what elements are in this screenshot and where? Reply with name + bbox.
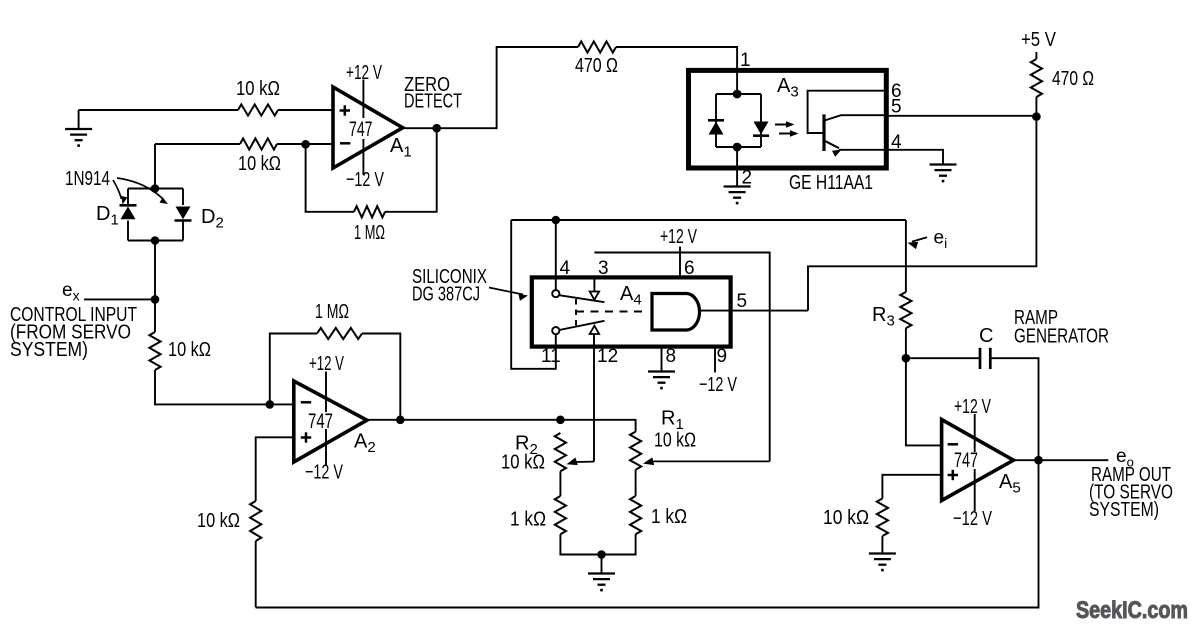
svg-text:10 kΩ: 10 kΩ xyxy=(236,77,280,100)
wire xyxy=(990,358,1038,460)
svg-text:8: 8 xyxy=(666,346,677,367)
capacitor C xyxy=(980,348,990,369)
wire (LED bridge outline) xyxy=(716,94,761,147)
label pin 2 xyxy=(742,168,753,189)
wire (pin 11 loop) xyxy=(511,220,556,369)
wire (pin 6 +12V stub) xyxy=(679,247,681,278)
wire xyxy=(155,370,294,404)
node (divider ground) xyxy=(597,550,606,559)
op-amp A2 747 xyxy=(294,381,367,462)
svg-text:11: 11 xyxy=(541,346,561,367)
wire (pin 5 out) xyxy=(701,310,809,312)
svg-text:+5 V: +5 V xyxy=(1021,28,1056,51)
label pin 6 (A4) xyxy=(684,258,695,279)
svg-text:SYSTEM): SYSTEM) xyxy=(10,338,88,361)
label 747 xyxy=(308,410,333,433)
node (R3 / C junction) xyxy=(902,354,911,363)
label -12 V (A4) xyxy=(699,373,737,396)
label 1N914 xyxy=(65,167,110,190)
label 10 k&#937; xyxy=(168,338,211,361)
svg-text:12: 12 xyxy=(597,346,618,367)
svg-text:+12 V: +12 V xyxy=(954,395,991,418)
label pin 4 xyxy=(891,132,902,153)
wire (A5 output) xyxy=(1014,459,1109,461)
switch arm (lower) xyxy=(559,321,604,330)
label ei xyxy=(934,228,948,252)
node (opto collector / pull-up) xyxy=(1032,112,1041,121)
diode (opto LED left, conducts up) xyxy=(708,120,724,134)
label 1 M&#937; xyxy=(315,300,349,323)
svg-text:DG 387CJ: DG 387CJ xyxy=(412,283,480,306)
label +12 V xyxy=(309,352,344,375)
wire xyxy=(881,536,883,554)
wire (A5 + input) xyxy=(882,475,941,499)
wire (diode box outline) xyxy=(128,189,183,241)
svg-text:5: 5 xyxy=(891,97,902,118)
wire (ei line down to R3) xyxy=(905,220,907,292)
annotation arrow ei xyxy=(906,237,927,249)
diode D1 1N914 xyxy=(120,205,137,219)
switch contact (pin 11) xyxy=(552,327,559,334)
dashed link (switch gang) xyxy=(576,299,647,327)
wire (A2 output) xyxy=(367,419,561,421)
label ex xyxy=(62,280,80,304)
wire xyxy=(1035,97,1037,117)
svg-text:10 kΩ: 10 kΩ xyxy=(501,451,545,474)
resistor 10 k&#937; (ex input) xyxy=(149,332,160,370)
resistor 10 k&#937; (A5 + input) xyxy=(877,499,888,537)
wire xyxy=(155,143,240,145)
label SILICONIX DG 387CJ xyxy=(412,265,487,306)
svg-text:747: 747 xyxy=(954,449,978,472)
label A4 xyxy=(620,283,642,309)
wire xyxy=(560,534,635,554)
node (LED bridge bottom) xyxy=(733,143,742,152)
label RAMP GENERATOR xyxy=(1014,306,1109,348)
svg-text:+12 V: +12 V xyxy=(346,61,382,84)
wire (opto pin 5 to node) xyxy=(886,115,1036,117)
svg-text:1 MΩ: 1 MΩ xyxy=(354,221,385,244)
svg-text:5: 5 xyxy=(737,291,748,312)
label 470 &#937; xyxy=(575,54,618,77)
label A3 xyxy=(777,75,799,101)
op-amp A5 minus sign xyxy=(948,443,958,446)
ground (A1 + input reference) xyxy=(65,110,92,146)
svg-text:10 kΩ: 10 kΩ xyxy=(168,338,211,361)
node (diode box top) xyxy=(151,184,160,193)
wire (A5 +12 V stub) xyxy=(974,414,976,452)
potentiometer R2 10 k&#937; xyxy=(555,433,566,471)
label +5 V xyxy=(1021,28,1056,51)
ground (A4 pin 8) xyxy=(648,372,675,389)
label A5 xyxy=(999,471,1021,497)
label C xyxy=(979,325,993,347)
resistor 1 M&#937; (A2 feedback) xyxy=(317,328,362,339)
wire xyxy=(403,47,578,128)
wire xyxy=(84,298,155,300)
label eo xyxy=(1116,446,1134,470)
label ZERO DETECT xyxy=(404,73,462,113)
wire (A1 +12 V stub) xyxy=(362,80,364,119)
label GE H11AA1 xyxy=(789,171,873,194)
label D1 xyxy=(96,203,119,229)
control triangle (pin 12, up) xyxy=(590,326,599,334)
svg-text:1: 1 xyxy=(740,50,751,71)
wire (bottom rail) xyxy=(256,460,1039,607)
phototransistor collector (pin 5) xyxy=(825,115,887,120)
node (A2 inverting input) xyxy=(266,400,275,409)
label 10 k&#937; xyxy=(501,451,545,474)
node (A1 inverting input) xyxy=(301,140,310,149)
label D2 xyxy=(201,206,224,232)
label 10 k&#937; xyxy=(654,429,696,452)
op-amp A1 minus sign xyxy=(340,142,350,145)
resistor 10 k&#937; (A1 + input) xyxy=(238,104,278,115)
label pin 9 (A4) xyxy=(717,346,728,367)
wiper arrow R1 xyxy=(642,457,770,467)
potentiometer R1 10 k&#937; xyxy=(630,432,641,470)
svg-text:4: 4 xyxy=(560,258,571,279)
op-amp A5 747 xyxy=(942,420,1014,501)
wire (A5 -12 V stub) xyxy=(974,469,976,511)
switch contact (pin 4) xyxy=(552,290,559,297)
resistor 1 k&#937; (below R2) xyxy=(555,496,566,534)
ground (opto pin 2) xyxy=(724,187,751,204)
svg-text:747: 747 xyxy=(308,410,333,433)
diode D2 1N914 xyxy=(175,207,192,221)
wire xyxy=(278,109,333,111)
wire (A2 -12 V stub) xyxy=(325,429,327,466)
op-amp A5 plus sign xyxy=(948,470,958,480)
wire (pin 3 stub) xyxy=(593,277,595,292)
annotation arrow to D1 xyxy=(113,180,127,205)
label pin 4 (A4) xyxy=(560,258,571,279)
control triangle (pin 3, down) xyxy=(590,292,599,300)
label -12 V xyxy=(305,461,343,484)
svg-text:−12 V: −12 V xyxy=(346,168,384,191)
label 747 xyxy=(954,449,978,472)
svg-text:3: 3 xyxy=(598,258,609,279)
label 747 xyxy=(349,118,373,141)
label pin 5 (A4) xyxy=(737,291,748,312)
svg-text:C: C xyxy=(979,325,993,347)
wiper arrow R2 xyxy=(565,457,594,468)
op-amp A1 plus sign xyxy=(340,105,350,115)
op-amp A2 plus sign xyxy=(301,432,311,442)
label +12 V xyxy=(346,61,382,84)
wire xyxy=(362,334,400,420)
wire xyxy=(906,357,980,359)
wire (A4 pin 12 to R2 wiper) xyxy=(593,334,595,462)
svg-text:6: 6 xyxy=(684,258,695,279)
svg-text:10 kΩ: 10 kΩ xyxy=(823,506,869,529)
label 10 k&#937; xyxy=(238,152,281,175)
wire xyxy=(905,328,907,358)
svg-text:10 kΩ: 10 kΩ xyxy=(238,152,281,175)
ground (divider) xyxy=(588,555,615,591)
label pin 1 xyxy=(740,50,751,71)
wire (A1 -12 V stub) xyxy=(362,139,364,175)
label pin 8 (A4) xyxy=(666,346,677,367)
node (LED bridge top) xyxy=(733,90,742,99)
svg-text:DETECT: DETECT xyxy=(404,90,462,113)
op-amp A1 747 xyxy=(333,87,403,168)
wire (A4 control bus) xyxy=(511,219,906,221)
label 1 k&#937; xyxy=(651,505,687,528)
label -12 V xyxy=(346,168,384,191)
label 10 k&#937; xyxy=(197,509,240,532)
node (diode box bottom) xyxy=(151,236,160,245)
annotation arrow to D2 xyxy=(117,178,170,207)
wire (A4 pin 3 to R1 wiper) xyxy=(594,253,769,462)
analog switch A4 package outline xyxy=(532,277,731,346)
label pin 12 (A4) xyxy=(597,346,618,367)
wire (A2 +12 V stub) xyxy=(325,372,327,413)
svg-text:GENERATOR: GENERATOR xyxy=(1014,325,1109,348)
label 10 k&#937; xyxy=(823,506,869,529)
svg-text:9: 9 xyxy=(717,346,728,367)
ground (opto emitter) xyxy=(930,165,957,182)
wire (A5 - input) xyxy=(906,358,942,445)
optocoupler A3 package outline xyxy=(689,70,887,168)
wire (pin 4 to ground) xyxy=(886,150,943,165)
svg-text:SeekIC.com: SeekIC.com xyxy=(1076,597,1188,624)
label 470 &#937; xyxy=(1052,67,1094,90)
svg-text:470 Ω: 470 Ω xyxy=(1052,67,1094,90)
label CONTROL INPUT (FROM SERVO SYSTEM) xyxy=(10,303,137,361)
label A1 xyxy=(390,135,412,161)
resistor 10 k&#937; (A2 + input) xyxy=(250,501,261,541)
label pin 5 xyxy=(891,97,902,118)
svg-text:−12 V: −12 V xyxy=(699,373,737,396)
svg-text:1 kΩ: 1 kΩ xyxy=(651,505,687,528)
wire xyxy=(154,144,156,189)
svg-text:−12 V: −12 V xyxy=(305,461,343,484)
resistor 10 k&#937; (A1 - input) xyxy=(240,138,277,149)
label 1 M&#937; xyxy=(354,221,385,244)
phototransistor emitter (pin 4) xyxy=(825,141,887,157)
annotation arrow to A4 xyxy=(489,288,529,301)
label R3 xyxy=(872,304,895,330)
resistor 470 &#937; (pull-up) xyxy=(1031,59,1042,97)
svg-text:1 MΩ: 1 MΩ xyxy=(315,300,349,323)
wire xyxy=(385,128,437,212)
node (A1 output) xyxy=(432,124,441,133)
wire xyxy=(1035,52,1037,59)
svg-text:+12 V: +12 V xyxy=(660,225,697,248)
label A2 xyxy=(354,431,376,457)
svg-text:10 kΩ: 10 kΩ xyxy=(197,509,240,532)
resistor 470 &#937; (LED drive) xyxy=(578,41,616,52)
label +12 V (A4) xyxy=(660,225,697,248)
label pin 11 (A4) xyxy=(541,346,561,367)
wire xyxy=(255,541,257,608)
ground (A5 + input) xyxy=(869,554,896,571)
wire xyxy=(277,143,333,145)
label 10 k&#937; xyxy=(236,77,280,100)
light arrows xyxy=(775,121,799,136)
gate symbol (A4 driver) xyxy=(652,294,700,331)
node (A4 pin 4 tap) xyxy=(552,216,561,225)
svg-text:−12 V: −12 V xyxy=(953,507,992,530)
svg-text:+12 V: +12 V xyxy=(309,352,344,375)
label pin 6 xyxy=(891,81,902,102)
svg-text:10 kΩ: 10 kΩ xyxy=(654,429,696,452)
phototransistor base bar xyxy=(822,114,825,151)
label pin 3 (A4) xyxy=(598,258,609,279)
wire (pin 9 stub) xyxy=(714,347,716,372)
svg-text:1 kΩ: 1 kΩ xyxy=(510,508,546,531)
phototransistor base lead (pin 6) xyxy=(808,91,886,133)
wire xyxy=(560,420,635,432)
watermark SeekIC.com xyxy=(1076,597,1188,624)
wire (A2 feedback loop) xyxy=(270,334,317,405)
op-amp A2 minus sign xyxy=(301,401,311,404)
wire (pin 4 stub) xyxy=(555,220,557,290)
wire xyxy=(559,471,561,496)
label -12 V xyxy=(953,507,992,530)
wire xyxy=(154,241,156,333)
label +12 V xyxy=(954,395,991,418)
wire xyxy=(736,147,738,187)
wire xyxy=(635,470,637,496)
svg-text:747: 747 xyxy=(349,118,373,141)
resistor R3 xyxy=(900,292,911,328)
switch arm (upper) xyxy=(559,295,604,302)
wire (A1 feedback loop) xyxy=(306,144,354,212)
node (R2 top) xyxy=(556,416,565,425)
svg-text:1N914: 1N914 xyxy=(65,167,110,190)
node (A5 output) xyxy=(1034,456,1043,465)
label RAMP OUT (TO SERVO SYSTEM) xyxy=(1089,463,1173,521)
resistor 1 M&#937; (A1 feedback) xyxy=(354,206,385,217)
wire xyxy=(808,117,1036,311)
label 1 k&#937; xyxy=(510,508,546,531)
svg-text:GE H11AA1: GE H11AA1 xyxy=(789,171,873,194)
wire xyxy=(79,109,238,111)
resistor 1 k&#937; (below R1) xyxy=(630,496,641,534)
label R2 xyxy=(515,433,538,459)
wire xyxy=(616,47,737,94)
svg-text:SYSTEM): SYSTEM) xyxy=(1089,498,1159,521)
diode (opto LED right, conducts down) xyxy=(753,122,769,136)
wire (A2 + input) xyxy=(256,437,294,501)
node (A2 feedback tap) xyxy=(396,416,405,425)
wire (pin 8 stub) xyxy=(661,347,663,372)
node ex xyxy=(151,295,160,304)
label R1 xyxy=(661,408,684,434)
svg-text:470 Ω: 470 Ω xyxy=(575,54,618,77)
